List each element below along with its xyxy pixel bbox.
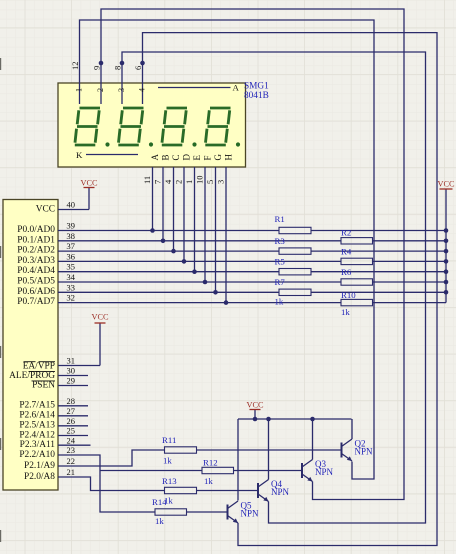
svg-text:23: 23	[67, 445, 76, 455]
svg-text:35: 35	[66, 262, 75, 272]
svg-text:NPN: NPN	[271, 487, 290, 497]
svg-text:P0.4/AD4: P0.4/AD4	[17, 266, 55, 276]
svg-text:8: 8	[113, 66, 123, 70]
svg-text:38: 38	[66, 231, 75, 241]
svg-text:P0.1/AD1: P0.1/AD1	[17, 235, 55, 245]
svg-text:2: 2	[174, 180, 184, 184]
svg-text:32: 32	[66, 293, 75, 303]
svg-text:39: 39	[66, 221, 75, 231]
svg-text:P2.7/A15: P2.7/A15	[19, 401, 55, 411]
svg-text:40: 40	[67, 200, 76, 210]
svg-text:R2: R2	[341, 228, 351, 238]
svg-text:R5: R5	[275, 257, 286, 267]
svg-text:P2.4/A12: P2.4/A12	[19, 430, 55, 440]
svg-text:26: 26	[67, 416, 76, 426]
svg-text:12: 12	[70, 62, 80, 71]
svg-text:R3: R3	[275, 236, 286, 246]
svg-text:P0.3/AD3: P0.3/AD3	[17, 256, 55, 266]
svg-text:R7: R7	[275, 277, 286, 287]
svg-text:NPN: NPN	[241, 509, 260, 519]
svg-text:R1: R1	[275, 214, 285, 224]
svg-text:10: 10	[195, 176, 205, 185]
svg-text:1k: 1k	[163, 456, 172, 466]
svg-text:P2.6/A14: P2.6/A14	[19, 411, 55, 421]
svg-text:6: 6	[133, 66, 143, 70]
svg-text:A: A	[233, 83, 240, 93]
svg-text:P2.2/A10: P2.2/A10	[19, 450, 55, 460]
svg-text:R13: R13	[162, 476, 177, 486]
svg-text:VCC: VCC	[91, 313, 109, 322]
svg-text:33: 33	[66, 282, 75, 292]
svg-text:24: 24	[67, 435, 76, 445]
svg-text:R11: R11	[162, 435, 176, 445]
svg-text:R6: R6	[341, 267, 352, 277]
svg-text:P0.5/AD5: P0.5/AD5	[17, 277, 55, 287]
svg-text:27: 27	[67, 406, 76, 416]
svg-text:NPN: NPN	[315, 467, 334, 477]
svg-text:P0.2/AD2: P0.2/AD2	[17, 246, 55, 256]
svg-text:P0.0/AD0: P0.0/AD0	[17, 225, 55, 235]
svg-text:21: 21	[67, 467, 76, 477]
svg-text:EA/VPP: EA/VPP	[23, 361, 55, 371]
svg-text:30: 30	[67, 366, 76, 376]
svg-text:P2.1/A9: P2.1/A9	[24, 461, 55, 471]
svg-text:P2.3/A11: P2.3/A11	[20, 440, 56, 450]
svg-text:R14: R14	[152, 497, 167, 507]
svg-text:11: 11	[142, 176, 152, 184]
svg-text:VCC: VCC	[36, 205, 55, 215]
svg-text:1: 1	[75, 88, 84, 92]
svg-text:F: F	[203, 155, 213, 160]
svg-text:22: 22	[67, 456, 76, 466]
svg-text:R4: R4	[341, 247, 352, 257]
svg-text:P2.5/A13: P2.5/A13	[19, 421, 55, 431]
svg-text:31: 31	[67, 356, 76, 366]
svg-text:P0.6/AD6: P0.6/AD6	[17, 287, 55, 297]
svg-text:VCC: VCC	[437, 180, 455, 189]
svg-text:7: 7	[153, 180, 163, 184]
svg-text:37: 37	[66, 241, 75, 251]
svg-text:VCC: VCC	[80, 179, 98, 188]
svg-text:5: 5	[205, 180, 215, 184]
svg-text:C: C	[171, 154, 181, 160]
svg-text:PSEN: PSEN	[32, 381, 55, 391]
svg-text:1k: 1k	[155, 516, 164, 526]
svg-text:1k: 1k	[275, 297, 284, 307]
svg-text:8041B: 8041B	[244, 91, 269, 101]
svg-text:1: 1	[184, 180, 194, 184]
svg-text:36: 36	[66, 251, 75, 261]
svg-text:P0.7/AD7: P0.7/AD7	[17, 297, 55, 307]
svg-text:1k: 1k	[204, 476, 213, 486]
svg-text:E: E	[192, 155, 202, 161]
svg-text:B: B	[161, 154, 171, 160]
svg-text:SMG1: SMG1	[244, 82, 269, 92]
svg-text:D: D	[182, 154, 192, 161]
svg-text:28: 28	[67, 396, 76, 406]
svg-text:NPN: NPN	[355, 447, 374, 457]
svg-text:25: 25	[67, 426, 76, 436]
svg-text:H: H	[224, 154, 234, 161]
svg-text:9: 9	[92, 66, 102, 70]
svg-text:ALE/PROG: ALE/PROG	[9, 371, 55, 381]
svg-text:P2.0/A8: P2.0/A8	[24, 472, 55, 482]
svg-text:VCC: VCC	[246, 401, 264, 410]
svg-text:29: 29	[67, 376, 76, 386]
svg-text:3: 3	[117, 88, 126, 92]
svg-text:34: 34	[66, 272, 75, 282]
svg-text:2: 2	[96, 88, 105, 92]
svg-text:1k: 1k	[341, 307, 350, 317]
svg-text:3: 3	[216, 180, 226, 184]
svg-text:R10: R10	[341, 290, 356, 300]
svg-text:G: G	[213, 154, 223, 161]
svg-text:R12: R12	[203, 458, 218, 468]
svg-text:4: 4	[138, 88, 147, 92]
svg-text:K: K	[76, 150, 83, 160]
svg-text:A: A	[150, 154, 160, 161]
